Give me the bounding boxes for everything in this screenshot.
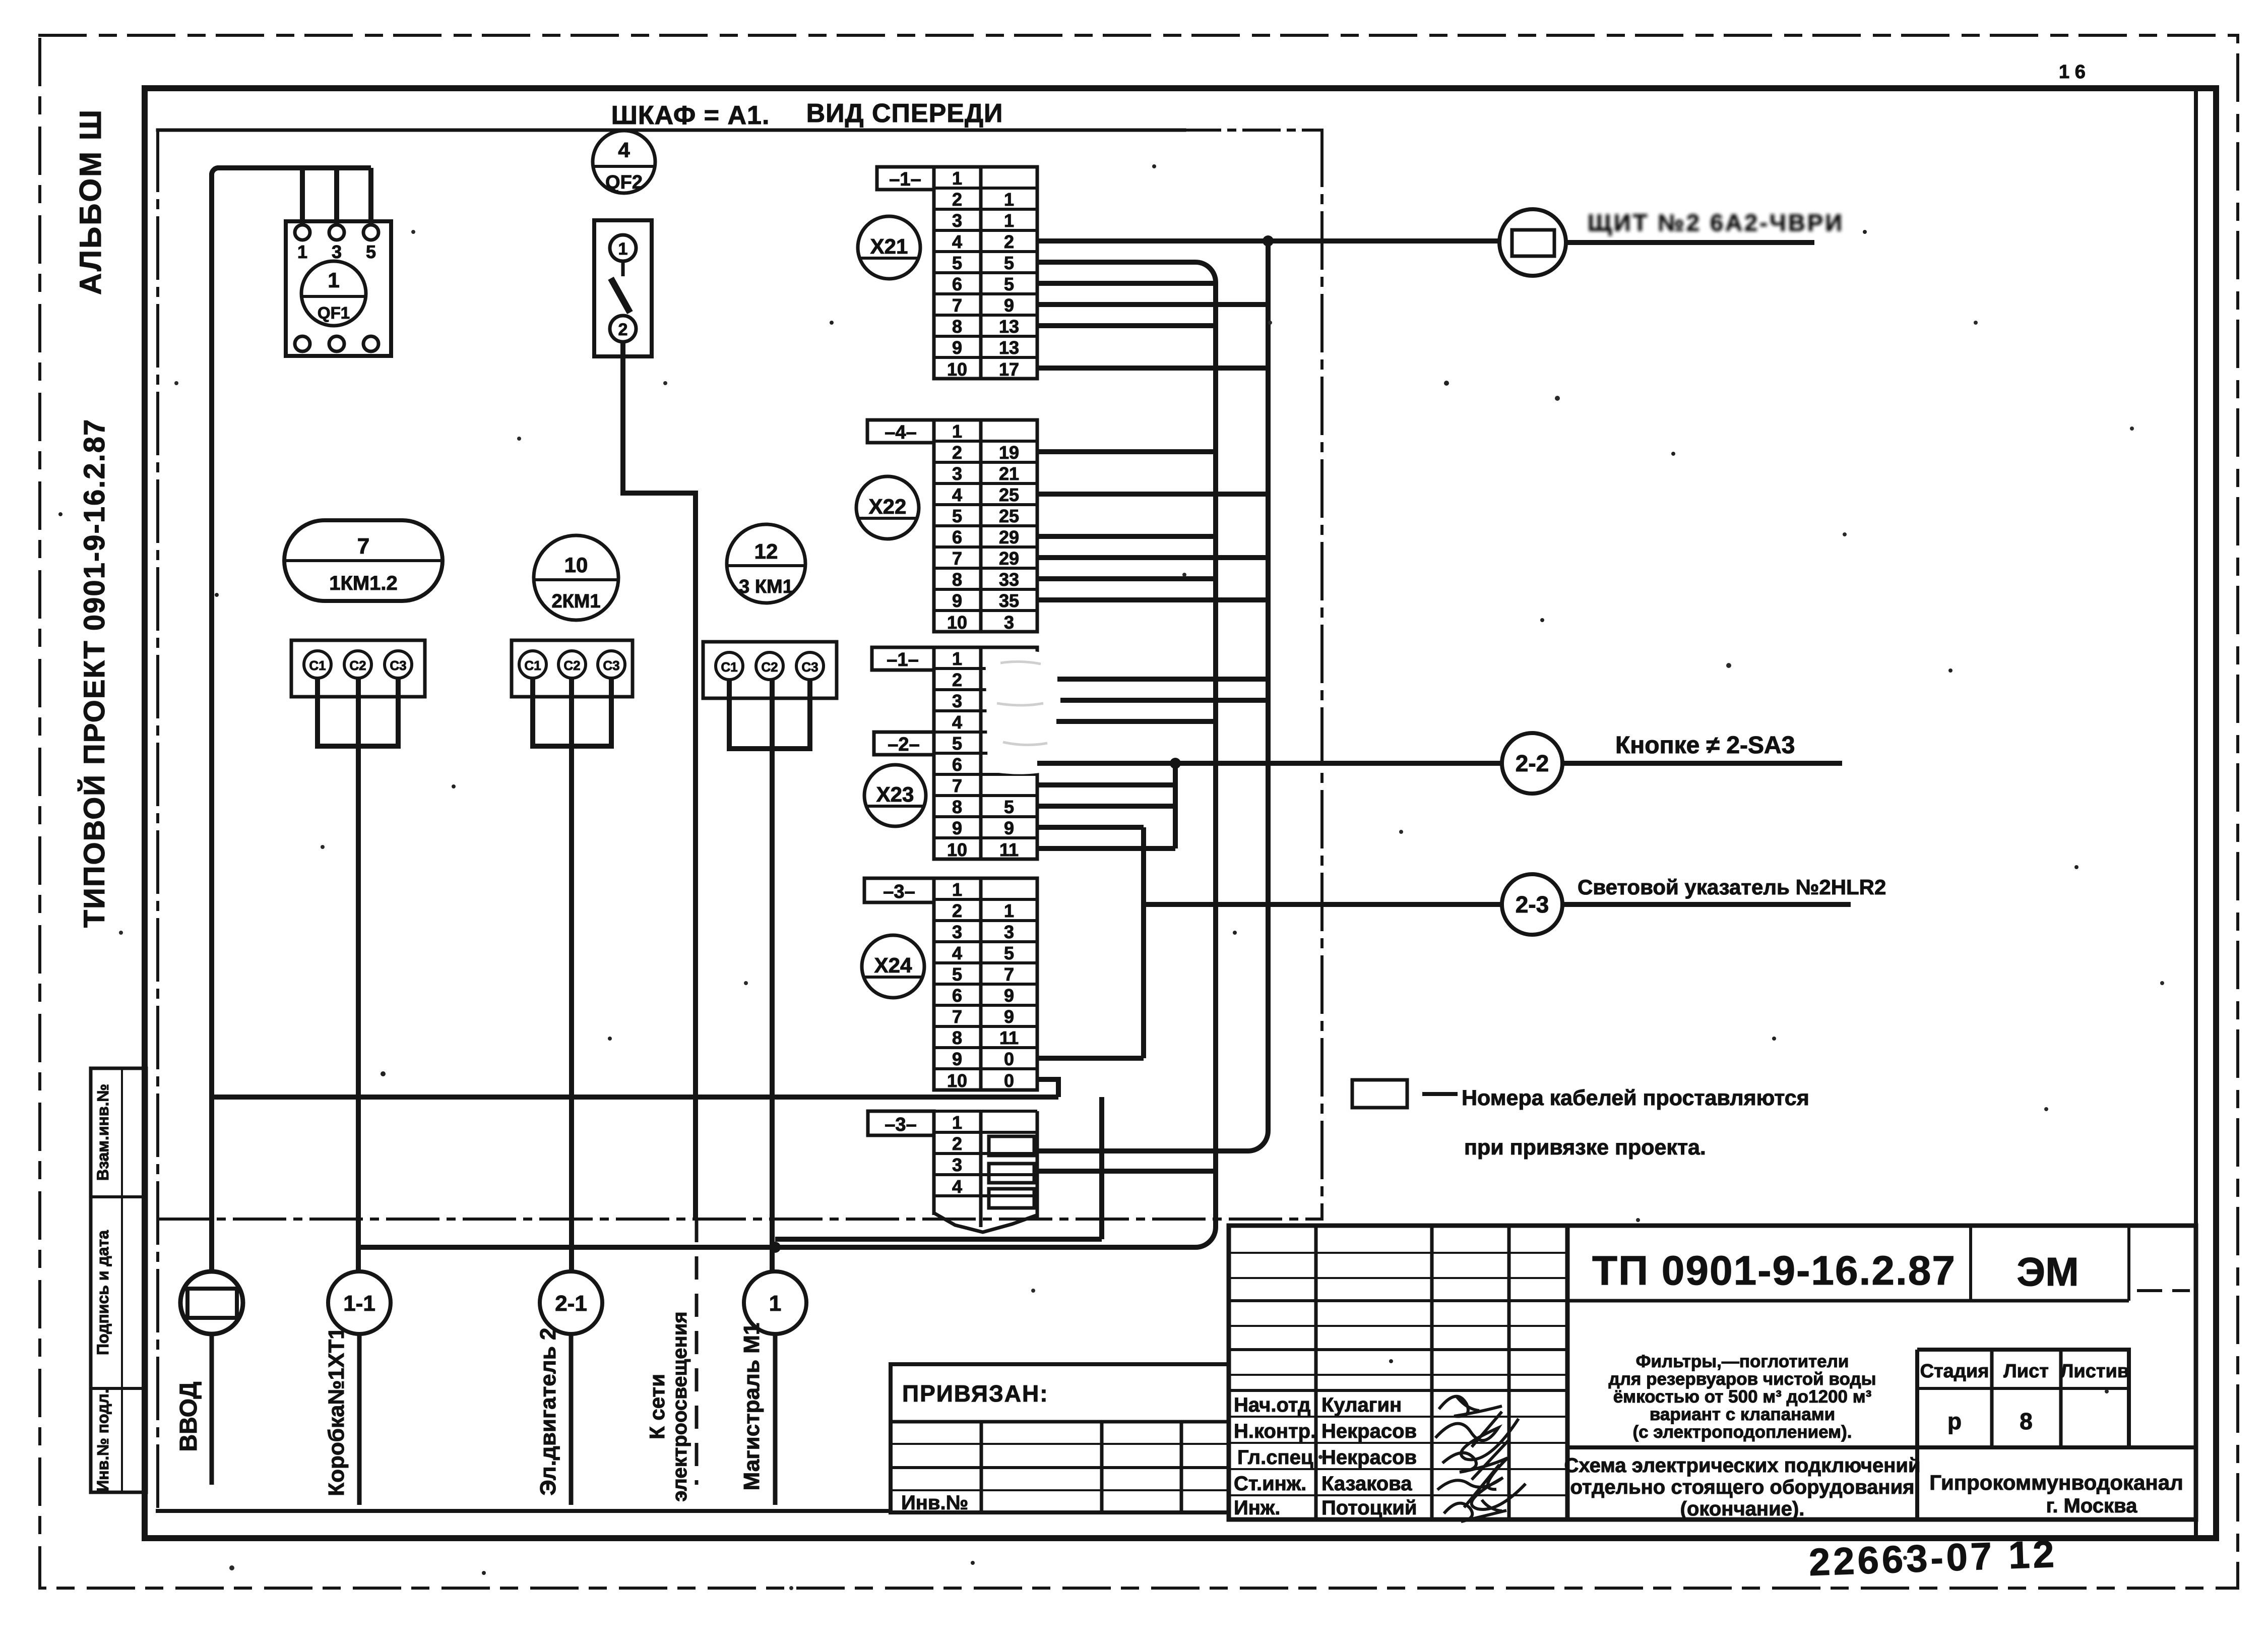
cable tag -2- of X23 xyxy=(874,732,934,755)
connector X23 circle xyxy=(864,765,926,826)
wire X22.8 xyxy=(1037,576,1216,581)
wire X22.4 xyxy=(1037,492,1268,497)
svg-text:3 КМ1: 3 КМ1 xyxy=(739,576,793,597)
PRIVYAZAN table xyxy=(891,1364,1229,1512)
wire X23.7 xyxy=(1037,782,1175,787)
svg-text:5: 5 xyxy=(1004,943,1014,963)
wire below 2-1 xyxy=(569,1334,574,1505)
svg-text:С2: С2 xyxy=(349,658,366,673)
svg-text:2: 2 xyxy=(952,670,962,690)
wire X23.3 xyxy=(1060,698,1268,703)
callout bubble 4/QF2 xyxy=(593,131,655,193)
svg-text:ЭМ: ЭМ xyxy=(2017,1249,2079,1294)
svg-text:ВВОД: ВВОД xyxy=(175,1381,202,1451)
svg-text:9: 9 xyxy=(952,818,962,838)
wire X21.8 xyxy=(1037,323,1216,328)
svg-text:8: 8 xyxy=(952,797,962,817)
wire U jumper C1-C3 of 2KM1 xyxy=(533,678,611,746)
cable tag -3- of X25 xyxy=(868,1111,934,1135)
svg-text:–3–: –3– xyxy=(885,1114,916,1135)
svg-text:3: 3 xyxy=(952,922,962,942)
svg-text:9: 9 xyxy=(1004,1006,1014,1027)
svg-text:Некрасов: Некрасов xyxy=(1321,1446,1417,1469)
svg-text:электроосвещения: электроосвещения xyxy=(669,1311,691,1501)
circle 2-2 button xyxy=(1502,733,1562,794)
svg-text:5: 5 xyxy=(952,506,962,526)
svg-text:Световой указатель №2HLR2: Световой указатель №2HLR2 xyxy=(1578,875,1886,899)
wire X21.4 to shield xyxy=(1037,238,1499,244)
cabinet =A1 dash-dot boundary left xyxy=(156,130,159,1511)
svg-text:10: 10 xyxy=(947,359,967,380)
drawing area bottom line xyxy=(158,1509,891,1513)
svg-text:3: 3 xyxy=(952,691,962,711)
sheet name text xyxy=(1564,1454,1920,1520)
junction node on shield wire xyxy=(1263,235,1274,247)
svg-text:1: 1 xyxy=(1004,189,1014,210)
svg-text:X23: X23 xyxy=(876,782,914,806)
svg-text:10: 10 xyxy=(947,612,967,633)
svg-text:2: 2 xyxy=(1004,231,1014,252)
wire riser X24 to lower bus xyxy=(1099,1097,1104,1239)
svg-text:ВИД СПЕРЕДИ: ВИД СПЕРЕДИ xyxy=(806,99,1003,128)
white-out smudge on X23 xyxy=(985,650,1067,774)
wire C2 of 3KM1 down to main M1 circle xyxy=(770,680,775,1271)
wire riser joining X23.7-10 to 2-2 xyxy=(1173,763,1178,848)
wire C2 of 1KM1.2 down to box 1-1 xyxy=(356,678,361,1271)
svg-text:9: 9 xyxy=(952,337,962,358)
svg-text:29: 29 xyxy=(999,527,1019,548)
svg-text:1: 1 xyxy=(769,1291,781,1316)
svg-text:5: 5 xyxy=(952,733,962,754)
svg-text:4: 4 xyxy=(952,1176,962,1197)
svg-text:17: 17 xyxy=(999,359,1019,380)
svg-text:АЛЬБОМ Ш: АЛЬБОМ Ш xyxy=(74,108,107,295)
connector X22 circle xyxy=(856,476,919,539)
svg-text:Гипрокоммунводоканал: Гипрокоммунводоканал xyxy=(1929,1471,2183,1494)
svg-text:6: 6 xyxy=(952,985,962,1006)
terminal strip X23 xyxy=(934,647,1037,859)
svg-text:1: 1 xyxy=(952,421,962,442)
svg-text:35: 35 xyxy=(999,590,1019,611)
wire bus1 from X21.5 down to bottom bus xyxy=(359,262,1216,1247)
svg-text:4: 4 xyxy=(952,943,962,963)
svg-text:Инв.№ подл.: Инв.№ подл. xyxy=(94,1389,112,1491)
wire X23.8 xyxy=(1037,804,1175,809)
wire dashed to lighting network xyxy=(695,1219,699,1485)
svg-text:25: 25 xyxy=(999,506,1019,526)
svg-text:4: 4 xyxy=(952,484,962,505)
svg-text:ёмкостью от 500 м³ до1200 м³: ёмкостью от 500 м³ до1200 м³ xyxy=(1613,1387,1872,1407)
svg-text:1: 1 xyxy=(297,241,307,262)
wire X24.9 xyxy=(1037,1056,1144,1061)
svg-text:Инж.: Инж. xyxy=(1234,1497,1280,1519)
wire below M1 xyxy=(773,1334,778,1505)
svg-text:Схема электрических подключени: Схема электрических подключений xyxy=(1564,1454,1920,1477)
wire X23.6 to button 2-2 xyxy=(1037,761,1502,766)
svg-text:Н.контр.: Н.контр. xyxy=(1234,1420,1316,1442)
cabinet =A1 dash-dot boundary right xyxy=(1320,130,1324,1219)
svg-text:–2–: –2– xyxy=(888,734,919,755)
svg-text:Магистраль М1: Магистраль М1 xyxy=(739,1323,764,1491)
svg-text:Кнопке ≠ 2-SА3: Кнопке ≠ 2-SА3 xyxy=(1615,732,1795,759)
wire to light indicator 2-3 xyxy=(1144,902,1502,907)
wire X22.9 xyxy=(1037,597,1268,602)
cable tag -3- of X24 xyxy=(864,878,934,902)
terminal strip X22 xyxy=(934,420,1037,632)
svg-text:1-1: 1-1 xyxy=(343,1291,375,1316)
svg-text:10: 10 xyxy=(564,553,588,577)
wire below 1-1 xyxy=(357,1334,362,1505)
terminal block 2KM1 C1 C2 C3 xyxy=(512,640,633,697)
svg-text:21: 21 xyxy=(999,463,1019,484)
svg-text:Листив: Листив xyxy=(2060,1361,2129,1382)
svg-text:С1: С1 xyxy=(309,658,326,673)
svg-text:вариант с клапанами: вариант с клапанами xyxy=(1650,1405,1835,1424)
project title text xyxy=(1608,1352,1876,1442)
svg-text:2: 2 xyxy=(618,320,628,339)
junction node on 2-2 wire xyxy=(1170,758,1181,769)
svg-text:1КМ1.2: 1КМ1.2 xyxy=(329,572,398,594)
svg-text:4: 4 xyxy=(618,138,630,162)
svg-text:ЩИТ №2 6А2-ЧВРИ: ЩИТ №2 6А2-ЧВРИ xyxy=(1588,209,1844,236)
svg-text:Подпись и дата: Подпись и дата xyxy=(94,1230,112,1355)
wire lower auxiliary bus xyxy=(775,1237,1102,1242)
svg-text:Ст.инж.: Ст.инж. xyxy=(1234,1473,1306,1495)
wire X21.7 xyxy=(1037,302,1268,307)
cabinet =A1 dash-dot boundary top xyxy=(158,129,1184,132)
circle 2-3 indicator xyxy=(1502,874,1562,935)
svg-text:7: 7 xyxy=(952,548,962,569)
svg-text:2: 2 xyxy=(952,1133,962,1154)
svg-text:2КМ1: 2КМ1 xyxy=(551,591,600,612)
svg-text:6: 6 xyxy=(952,527,962,548)
svg-text:8: 8 xyxy=(2020,1408,2033,1434)
svg-text:Взам.инв.№: Взам.инв.№ xyxy=(94,1084,112,1181)
scan speckles xyxy=(58,164,2078,1575)
svg-text:7: 7 xyxy=(1004,964,1014,985)
wire from QF2 down xyxy=(623,342,696,1219)
svg-text:X21: X21 xyxy=(870,234,908,258)
svg-text:9: 9 xyxy=(1004,818,1014,838)
svg-text:11: 11 xyxy=(999,1027,1019,1048)
svg-text:7: 7 xyxy=(952,295,962,316)
junction node on M1 riser xyxy=(770,1242,781,1253)
svg-text:для резервуаров чистой воды: для резервуаров чистой воды xyxy=(1608,1369,1876,1389)
wire X24.10 hook xyxy=(1037,1079,1058,1097)
svg-text:2: 2 xyxy=(952,189,962,210)
svg-text:7: 7 xyxy=(952,1006,962,1027)
svg-text:2: 2 xyxy=(952,900,962,921)
wire long bottom link to VVOD riser xyxy=(212,1095,1058,1100)
svg-text:ШКАФ = А1.: ШКАФ = А1. xyxy=(611,101,770,130)
svg-text:X22: X22 xyxy=(869,495,907,518)
wire indicator label line xyxy=(1562,902,1851,907)
svg-text:25: 25 xyxy=(999,484,1019,505)
svg-text:X24: X24 xyxy=(874,953,912,977)
cable tag -1- of X21 xyxy=(877,167,934,190)
svg-text:8: 8 xyxy=(952,1027,962,1048)
svg-text:5: 5 xyxy=(1004,797,1014,817)
svg-text:9: 9 xyxy=(1004,295,1014,316)
wire shield label line xyxy=(1566,240,1814,245)
svg-text:10: 10 xyxy=(947,1070,967,1091)
svg-text:ПРИВЯЗАН:: ПРИВЯЗАН: xyxy=(902,1380,1049,1407)
svg-text:С3: С3 xyxy=(603,658,619,673)
wire X21.6 xyxy=(1037,281,1216,286)
wire X22.6 xyxy=(1037,534,1216,539)
wire X21.10 xyxy=(1037,366,1268,371)
svg-text:–4–: –4– xyxy=(885,422,916,443)
contactor callout 10/2KM1 xyxy=(534,535,618,620)
svg-text:1: 1 xyxy=(952,1112,962,1133)
node circle 2-1 xyxy=(540,1271,602,1334)
svg-text:33: 33 xyxy=(999,569,1019,590)
svg-text:5: 5 xyxy=(952,253,962,273)
svg-text:С2: С2 xyxy=(761,659,778,675)
svg-text:2-1: 2-1 xyxy=(555,1291,587,1316)
svg-text:11: 11 xyxy=(999,839,1019,860)
svg-text:Стадия: Стадия xyxy=(1920,1361,1989,1382)
terminal block 1KM1.2 C1 C2 C3 xyxy=(291,640,425,697)
svg-text:1: 1 xyxy=(952,168,962,189)
svg-text:7: 7 xyxy=(952,775,962,796)
wire riser 2-3 xyxy=(1141,827,1146,1058)
svg-text:1: 1 xyxy=(1004,900,1014,921)
svg-text:6: 6 xyxy=(952,274,962,294)
svg-text:Лист: Лист xyxy=(2003,1361,2049,1382)
svg-text:г. Москва: г. Москва xyxy=(2046,1495,2137,1517)
svg-text:29: 29 xyxy=(999,548,1019,569)
svg-text:1: 1 xyxy=(1004,210,1014,231)
terminal block 3KM1 C1 C2 C3 xyxy=(703,642,837,698)
svg-text:5: 5 xyxy=(952,964,962,985)
svg-text:Кулагин: Кулагин xyxy=(1321,1394,1402,1416)
svg-text:9: 9 xyxy=(1004,985,1014,1006)
svg-text:3: 3 xyxy=(952,1155,962,1175)
svg-text:8: 8 xyxy=(952,569,962,590)
svg-text:Инв.№: Инв.№ xyxy=(901,1492,968,1514)
svg-text:Гл.спец.: Гл.спец. xyxy=(1237,1446,1319,1469)
svg-text:С2: С2 xyxy=(563,658,580,673)
svg-text:19: 19 xyxy=(999,442,1019,463)
wire X25.3 to bus1 xyxy=(1038,1169,1216,1174)
connector X21 circle xyxy=(858,216,920,279)
svg-text:отдельно стоящего оборудования: отдельно стоящего оборудования xyxy=(1570,1476,1914,1498)
svg-text:3: 3 xyxy=(332,241,342,262)
wire QF1 phase drops xyxy=(302,168,371,225)
svg-text:3: 3 xyxy=(952,463,962,484)
wire button label line xyxy=(1562,761,1842,766)
svg-text:Потоцкий: Потоцкий xyxy=(1321,1497,1417,1519)
svg-text:10: 10 xyxy=(947,839,967,860)
svg-text:13: 13 xyxy=(999,337,1019,358)
svg-text:8: 8 xyxy=(952,316,962,337)
cable tag -1- of X23 xyxy=(872,647,934,670)
svg-text:(с электроподоплением).: (с электроподоплением). xyxy=(1633,1422,1852,1442)
svg-text:6: 6 xyxy=(952,754,962,775)
terminal strip X24 xyxy=(934,878,1037,1090)
node circle 1 main M1 xyxy=(744,1271,806,1334)
svg-text:Нач.отд: Нач.отд xyxy=(1234,1394,1310,1416)
cable tag -4- of X22 xyxy=(867,420,934,443)
svg-text:ТП 0901-9-16.2.87: ТП 0901-9-16.2.87 xyxy=(1592,1248,1956,1294)
cable symbol to shield circle xyxy=(1499,209,1566,276)
svg-text:13: 13 xyxy=(999,316,1019,337)
signer names xyxy=(1321,1394,1417,1519)
svg-text:–1–: –1– xyxy=(887,649,918,671)
svg-text:–3–: –3– xyxy=(883,881,915,902)
wire X23.10 xyxy=(1037,846,1175,851)
wire U jumper C1-C3 of 3KM1 xyxy=(729,680,810,749)
wire QF1 feeder bus xyxy=(212,168,371,1271)
svg-text:12: 12 xyxy=(754,539,778,563)
wire X22.2 xyxy=(1037,449,1216,454)
svg-text:4: 4 xyxy=(952,231,962,252)
wire C2 of 2KM1 down to motor circle 2-1 xyxy=(569,678,574,1271)
terminal strip X21 xyxy=(934,167,1037,379)
svg-text:при привязке проекта.: при привязке проекта. xyxy=(1464,1135,1706,1160)
svg-text:К сети: К сети xyxy=(645,1374,669,1439)
svg-text:QF1: QF1 xyxy=(318,303,350,322)
wire X22.7 xyxy=(1037,555,1268,560)
wire bus2 from shield wire down to X25.2 xyxy=(1038,241,1268,1151)
svg-text:С3: С3 xyxy=(390,658,406,673)
svg-text:QF2: QF2 xyxy=(605,172,643,193)
cabinet =A1 dash-dot boundary bottom xyxy=(158,1218,1322,1221)
svg-text:5: 5 xyxy=(366,241,376,262)
svg-text:Фильтры,—поглотители: Фильтры,—поглотители xyxy=(1636,1352,1849,1371)
svg-text:1: 1 xyxy=(618,239,628,259)
svg-text:Номера кабелей проставляют: Номера кабелей проставляются xyxy=(1462,1086,1809,1110)
svg-text:Некрасов: Некрасов xyxy=(1321,1420,1417,1442)
svg-text:Коробка№1ХТ1: Коробка№1ХТ1 xyxy=(324,1327,349,1496)
smeared shield label xyxy=(1588,209,1844,236)
svg-text:1: 1 xyxy=(328,268,339,292)
terminal strip X25 bottom xyxy=(934,1111,1037,1232)
svg-text:р: р xyxy=(1947,1408,1962,1434)
wire U jumper C1-C3 of 1KM1.2 xyxy=(318,678,398,746)
svg-text:0: 0 xyxy=(1004,1070,1014,1091)
svg-text:–1–: –1– xyxy=(889,169,921,190)
wire X23.9 xyxy=(1037,825,1144,830)
cable number placeholder boxes in X25 xyxy=(989,1136,1034,1208)
svg-text:9: 9 xyxy=(952,590,962,611)
contactor callout 7/1KM1.2 xyxy=(284,520,443,601)
svg-text:С1: С1 xyxy=(721,659,737,675)
svg-text:С1: С1 xyxy=(524,658,541,673)
contactor callout 12/3KM1 xyxy=(727,524,805,603)
svg-text:3: 3 xyxy=(952,210,962,231)
title block xyxy=(1229,1226,2196,1520)
svg-text:9: 9 xyxy=(952,1049,962,1069)
wire X23.4 xyxy=(1056,719,1216,724)
svg-text:5: 5 xyxy=(1004,274,1014,294)
signer roles xyxy=(1234,1394,1319,1519)
svg-text:С3: С3 xyxy=(801,659,818,675)
connector X24 circle xyxy=(862,935,924,998)
svg-text:ТИПОВОЙ ПРОЕКТ 0901-9-16.2.8: ТИПОВОЙ ПРОЕКТ 0901-9-16.2.87 xyxy=(78,418,111,928)
svg-text:1 6: 1 6 xyxy=(2059,62,2086,83)
svg-text:22663-07 12: 22663-07 12 xyxy=(1808,1533,2058,1584)
svg-text:2-2: 2-2 xyxy=(1516,750,1549,776)
svg-text:1: 1 xyxy=(952,648,962,669)
circuit breaker QF1 xyxy=(286,221,391,356)
svg-text:4: 4 xyxy=(952,712,962,733)
signatures scribble xyxy=(1435,1396,1526,1522)
svg-text:5: 5 xyxy=(1004,253,1014,273)
switch QF2 xyxy=(594,220,652,356)
node circle 1-1 xyxy=(328,1271,391,1334)
svg-text:0: 0 xyxy=(1004,1049,1014,1069)
svg-text:Казакова: Казакова xyxy=(1321,1473,1412,1495)
wire X23.2 xyxy=(1057,677,1268,682)
svg-text:2-3: 2-3 xyxy=(1516,891,1549,918)
cable entry circle VVOD xyxy=(180,1271,243,1334)
svg-text:7: 7 xyxy=(357,534,369,559)
legend cable box symbol xyxy=(1352,1080,1407,1108)
margin stamp boxes xyxy=(91,1068,146,1492)
inner right frame line xyxy=(2194,88,2198,1538)
svg-text:Эл.двигатель 2: Эл.двигатель 2 xyxy=(536,1328,560,1496)
svg-text:(окончание).: (окончание). xyxy=(1680,1498,1805,1520)
wire below VVOD xyxy=(210,1334,214,1485)
svg-text:3: 3 xyxy=(1004,612,1014,633)
svg-text:1: 1 xyxy=(952,879,962,900)
svg-text:3: 3 xyxy=(1004,922,1014,942)
svg-text:2: 2 xyxy=(952,442,962,463)
